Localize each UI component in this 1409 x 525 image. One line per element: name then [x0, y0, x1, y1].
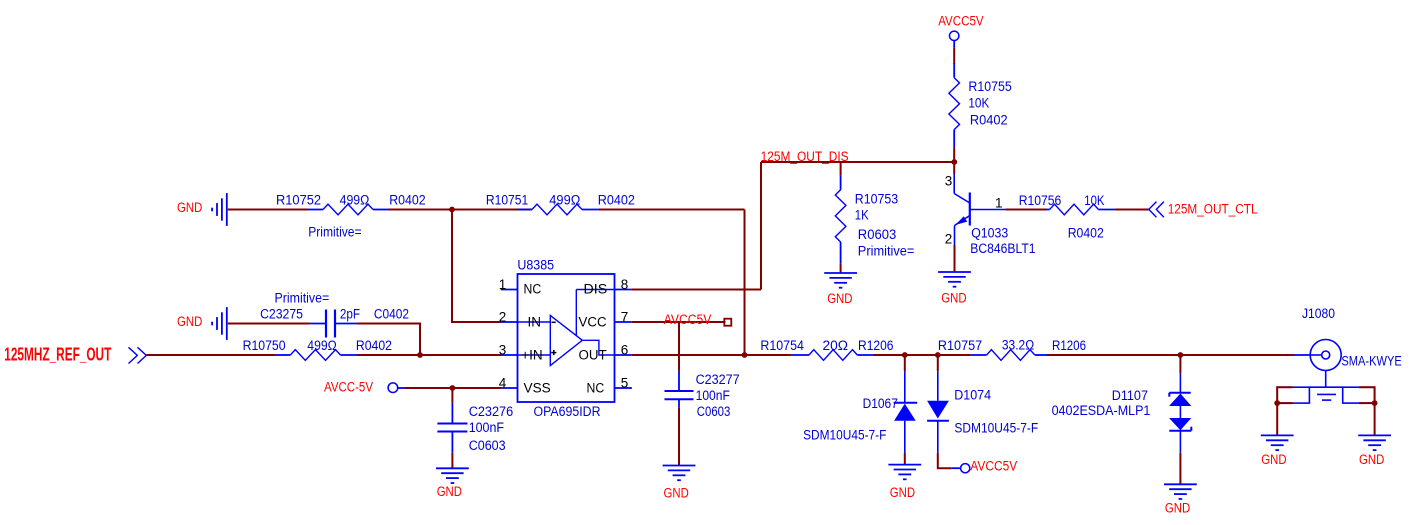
U8385 inverting input minus sign	[552, 321, 556, 323]
wire R10754 to R10757	[874, 354, 971, 356]
wire J1080 shield corner right	[1359, 387, 1374, 403]
junction shield right	[1372, 400, 1378, 406]
svg-text:AVCC5V: AVCC5V	[664, 312, 712, 327]
svg-text:33.2Ω: 33.2Ω	[1002, 338, 1034, 353]
wire R10753 to GND	[840, 264, 842, 273]
svg-text:GND: GND	[177, 200, 203, 215]
wire input to R10750	[146, 354, 275, 356]
resistor R10751	[517, 204, 599, 215]
wire GND to C23275	[228, 323, 309, 325]
svg-text:AVCC5V: AVCC5V	[970, 459, 1017, 474]
svg-text:GND: GND	[437, 484, 463, 499]
capacitor C23277	[665, 371, 694, 408]
U8385 pin 2	[499, 309, 518, 324]
svg-text:NC: NC	[524, 282, 542, 297]
ground GND (C23275)	[212, 307, 227, 340]
svg-text:Primitive=: Primitive=	[858, 243, 915, 258]
ground GND (J1080 right)	[1358, 435, 1391, 450]
svg-text:C0402: C0402	[374, 307, 409, 322]
svg-text:499Ω: 499Ω	[307, 338, 336, 353]
svg-text:100nF: 100nF	[696, 388, 730, 403]
wire D1107 to GND	[1179, 453, 1181, 485]
svg-text:125M_OUT_CTL: 125M_OUT_CTL	[1168, 202, 1258, 217]
svg-text:R0402: R0402	[1068, 225, 1104, 240]
svg-text:VSS: VSS	[524, 381, 551, 396]
resistor R10752	[307, 204, 389, 215]
svg-text:100nF: 100nF	[469, 420, 504, 435]
wire junction to op-amp IN pin 2	[452, 210, 501, 323]
svg-text:R10756: R10756	[1019, 193, 1062, 208]
wire R10755 to junction	[953, 147, 955, 162]
svg-text:0402ESDA-MLP1: 0402ESDA-MLP1	[1052, 403, 1151, 418]
svg-text:R10755: R10755	[968, 79, 1011, 94]
svg-text:3: 3	[499, 342, 507, 357]
power port circle AVCC-5V	[388, 383, 398, 393]
wire junction to D1067	[904, 355, 906, 371]
svg-text:C23276: C23276	[469, 404, 514, 419]
connector J1080 SMA	[1294, 340, 1341, 388]
svg-text:2: 2	[499, 309, 507, 324]
svg-text:SDM10U45-7-F: SDM10U45-7-F	[954, 420, 1038, 435]
junction feedback / OUT row	[742, 352, 748, 358]
capacitor C23275	[309, 310, 358, 338]
wire J1080 shield corner left	[1277, 387, 1292, 403]
wire AVCC-5V to VSS pin 4	[405, 387, 502, 389]
wire D1074 to AVCC5V port	[938, 453, 952, 468]
junction D1107	[1178, 352, 1184, 358]
wire shield left to GND	[1276, 403, 1278, 435]
svg-text:R1206: R1206	[858, 338, 894, 353]
ground GND (J1080 left)	[1261, 435, 1294, 450]
junction D1074	[935, 352, 941, 358]
U8385 pin 8	[615, 277, 632, 292]
ground GND (C23276)	[436, 468, 469, 483]
wire 125M_OUT_DIS to R10753	[840, 162, 842, 176]
power port circle AVCC5V (top)	[950, 31, 959, 40]
wire C23277 to GND	[678, 407, 680, 465]
junction D1067	[902, 352, 908, 358]
ground GND (R10752)	[212, 193, 227, 226]
svg-text:OPA695IDR: OPA695IDR	[534, 404, 601, 419]
svg-text:+IN: +IN	[521, 348, 542, 363]
wire C23276 to GND	[451, 453, 453, 469]
svg-text:AVCC5V: AVCC5V	[938, 13, 983, 28]
U8385 pin 1	[499, 277, 518, 292]
svg-text:NC: NC	[587, 381, 605, 396]
svg-text:7: 7	[621, 309, 629, 324]
ground GND (Q1033)	[938, 272, 971, 287]
svg-text:D1107: D1107	[1112, 388, 1148, 403]
resistor R10753	[835, 176, 846, 264]
wire R10752 to R10751	[389, 209, 533, 211]
svg-text:10K: 10K	[968, 96, 989, 111]
svg-text:1: 1	[995, 196, 1003, 211]
wire junction to Q1033 collector	[953, 162, 955, 174]
wire D1067 to GND	[904, 453, 906, 465]
svg-text:GND: GND	[664, 486, 690, 501]
wire VCC pin 7 to AVCC5V port	[632, 321, 726, 323]
svg-text:GND: GND	[1165, 501, 1191, 516]
resistor R10756	[1046, 204, 1116, 215]
J1080 shield shape	[1277, 387, 1374, 403]
U8385 pin 6	[615, 342, 632, 357]
svg-text:6: 6	[621, 342, 629, 357]
transistor Q1033 BC846BLT1	[954, 174, 1005, 245]
wire pin4 to C23276	[451, 388, 453, 403]
svg-text:SDM10U45-7-F: SDM10U45-7-F	[803, 427, 886, 442]
port 125M_OUT_CTL chevrons	[1149, 202, 1164, 218]
svg-text:125M_OUT_DIS: 125M_OUT_DIS	[761, 149, 849, 164]
capacitor C23276	[437, 403, 467, 453]
svg-text:GND: GND	[177, 314, 203, 329]
diode D1067 SDM10U45-7-F	[894, 371, 918, 453]
AVCC-5V port tick	[398, 387, 405, 389]
svg-text:R0402: R0402	[970, 113, 1008, 128]
wire junction to D1107	[1179, 355, 1181, 374]
svg-text:125MHZ_REF_OUT: 125MHZ_REF_OUT	[4, 345, 111, 365]
wire Q1033 base to R10756	[1005, 209, 1046, 211]
svg-text:R10753: R10753	[855, 192, 898, 207]
wire junction to D1074	[937, 355, 939, 371]
wire R10750 to op-amp +IN	[357, 354, 501, 356]
ground GND (D1107)	[1164, 484, 1197, 499]
port 125MHZ_REF_OUT chevrons	[129, 347, 147, 363]
resistor R10755	[949, 63, 960, 147]
svg-text:8: 8	[621, 277, 629, 292]
svg-text:R10754: R10754	[760, 338, 804, 353]
svg-text:R10750: R10750	[243, 338, 286, 353]
ground GND (R10753)	[824, 273, 857, 288]
wire Q1033 emitter to GND	[954, 245, 956, 272]
svg-text:OUT: OUT	[579, 348, 607, 363]
AVCC5V port tick	[953, 41, 955, 48]
wire AVCC5V to R10755	[953, 48, 955, 64]
svg-text:R0603: R0603	[858, 227, 897, 242]
ground GND (C23277)	[663, 466, 696, 481]
svg-text:R10757: R10757	[938, 338, 982, 353]
junction op-amp IN branch	[449, 207, 455, 213]
svg-text:C0603: C0603	[697, 404, 731, 419]
wire DIS pin 8 row	[632, 289, 761, 291]
svg-text:499Ω: 499Ω	[549, 192, 580, 207]
junction pin4 / C23276	[450, 385, 456, 391]
wire feedback vertical	[744, 210, 746, 356]
svg-text:GND: GND	[827, 291, 853, 306]
J1080 shield earth symbol	[1317, 394, 1336, 400]
svg-text:GND: GND	[941, 291, 967, 306]
svg-text:DIS: DIS	[584, 282, 608, 297]
svg-text:5: 5	[621, 375, 629, 390]
svg-text:D1067: D1067	[863, 396, 898, 411]
svg-text:J1080: J1080	[1302, 306, 1335, 321]
wire 125M_OUT_DIS net	[761, 161, 954, 163]
junction shield left	[1274, 400, 1280, 406]
U8385 pin 7	[615, 309, 632, 324]
ground GND (D1067)	[888, 465, 921, 480]
svg-text:499Ω: 499Ω	[340, 192, 370, 207]
svg-text:C0603: C0603	[469, 438, 506, 453]
wire GND to R10752	[228, 209, 307, 211]
svg-text:IN: IN	[528, 315, 542, 330]
junction 125M_OUT_DIS / R10755 / Q1033	[951, 159, 957, 165]
U8385 pin 4	[499, 375, 518, 390]
svg-text:2pF: 2pF	[340, 307, 360, 322]
svg-text:R1206: R1206	[1052, 338, 1086, 353]
op-amp U8385 OPA695IDR	[518, 274, 615, 402]
wire pin7 to C23277	[678, 322, 680, 371]
svg-text:AVCC-5V: AVCC-5V	[324, 380, 373, 395]
svg-text:D1074: D1074	[954, 387, 991, 402]
svg-text:R0402: R0402	[598, 192, 635, 207]
svg-text:R0402: R0402	[356, 338, 392, 353]
svg-text:3: 3	[945, 174, 953, 189]
diode D1074 SDM10U45-7-F	[927, 371, 949, 453]
svg-text:2: 2	[945, 232, 953, 247]
svg-text:GND: GND	[1359, 452, 1385, 467]
U8385 pin 3	[499, 342, 518, 357]
svg-text:R10751: R10751	[486, 192, 528, 207]
wire C23275 to main row	[358, 324, 421, 356]
svg-text:10K: 10K	[1084, 193, 1104, 208]
svg-text:R10752: R10752	[276, 192, 321, 207]
U8385 pin 5	[615, 375, 632, 390]
wire OUT pin 6 row	[632, 354, 792, 356]
AVCC5V port tick (D1074)	[952, 467, 961, 469]
wire R10751 to feedback node	[599, 209, 745, 211]
svg-text:1K: 1K	[855, 207, 869, 222]
svg-text:Primitive=: Primitive=	[308, 225, 361, 240]
svg-text:C23277: C23277	[696, 372, 740, 387]
wire shield right to GND	[1374, 403, 1376, 435]
svg-text:SMA-KWYE: SMA-KWYE	[1341, 354, 1401, 369]
svg-text:Primitive=: Primitive=	[275, 290, 330, 305]
svg-text:C23275: C23275	[260, 307, 303, 322]
diode D1107 0402ESDA-MLP1 (dual TVS)	[1169, 374, 1191, 453]
svg-text:GND: GND	[1261, 452, 1287, 467]
svg-text:1: 1	[499, 277, 507, 292]
svg-text:20Ω: 20Ω	[823, 338, 849, 353]
resistor R10754	[792, 350, 874, 361]
svg-text:VCC: VCC	[579, 315, 607, 330]
power port square AVCC5V (pin 7)	[724, 319, 731, 326]
svg-text:Q1033: Q1033	[971, 226, 1008, 241]
svg-text:GND: GND	[890, 485, 916, 500]
wire DIS vertical to 125M_OUT_DIS	[760, 162, 762, 290]
svg-text:U8385: U8385	[517, 257, 554, 272]
junction C23275 branch / main row	[417, 352, 423, 358]
wire R10757 to J1080	[1047, 354, 1294, 356]
power port circle AVCC5V (D1074)	[961, 464, 970, 473]
wire R10756 to port 125M_OUT_CTL	[1116, 209, 1149, 211]
U8385 non-inverting input plus sign	[551, 350, 556, 355]
svg-text:BC846BLT1: BC846BLT1	[970, 241, 1035, 256]
resistor R10750	[275, 350, 357, 361]
svg-text:R0402: R0402	[389, 192, 425, 207]
resistor R10757	[971, 350, 1047, 361]
